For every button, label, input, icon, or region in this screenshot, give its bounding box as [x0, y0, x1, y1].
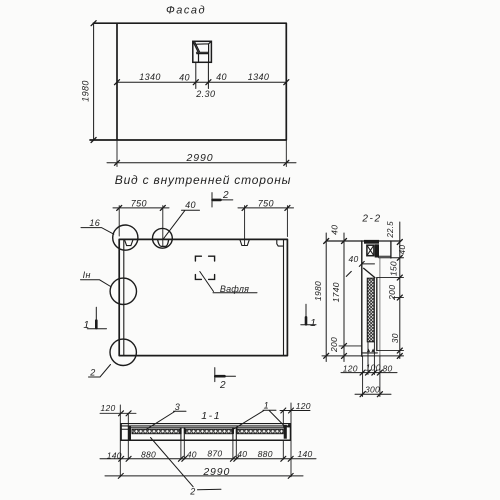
detail circle K3 left middle [110, 278, 136, 304]
inner view left rib line [123, 239, 125, 355]
section 2-2 black band [375, 244, 379, 257]
section 1-1 body bottom line [121, 439, 290, 441]
section 2-2 web inner line [376, 278, 378, 351]
svg-text:40: 40 [330, 225, 340, 235]
detail circle K4 bottom left [110, 339, 136, 365]
facade outline [90, 23, 286, 140]
section 2-2 left edge [361, 241, 363, 356]
svg-text:120: 120 [100, 403, 115, 413]
svg-text:40: 40 [237, 449, 247, 459]
svg-text:750: 750 [258, 199, 274, 209]
svg-text:150: 150 [388, 261, 398, 276]
svg-text:1: 1 [83, 319, 89, 331]
section 2-2 thick top band [364, 240, 379, 244]
svg-text:Фасад: Фасад [166, 5, 206, 17]
section 2-2 flange bottom [376, 256, 404, 258]
section marker 1 right [301, 304, 316, 325]
svg-text:1: 1 [310, 317, 316, 329]
section marker 2 top [212, 193, 233, 207]
svg-text:140: 140 [107, 451, 122, 461]
section 1-1 bottom dim line [100, 458, 316, 460]
svg-text:40: 40 [348, 254, 358, 264]
section 2-2 right extensions [377, 278, 404, 351]
waffle dashed square [195, 256, 214, 279]
svg-text:80: 80 [382, 364, 392, 374]
facade loop extension legs [196, 62, 209, 88]
svg-text:880: 880 [141, 449, 156, 459]
section 1-1 right face [289, 424, 291, 441]
svg-text:1740: 1740 [331, 282, 341, 302]
section 1-1 total dim 2990 [105, 475, 303, 477]
section 1-1 insulation strip S3 [237, 429, 283, 433]
svg-text:1: 1 [264, 401, 269, 411]
facade middle dimension line [117, 81, 286, 83]
svg-text:40: 40 [179, 73, 190, 83]
section 2-2 bottom dim line 120 100 80 [341, 372, 397, 374]
top edge notch C [240, 240, 249, 246]
svg-text:22.5: 22.5 [386, 221, 395, 239]
svg-text:300: 300 [365, 385, 380, 395]
section 2-2 insulation strip [367, 278, 374, 342]
waffle label [200, 272, 257, 293]
section 1-1 outer skin [121, 424, 290, 426]
svg-text:40: 40 [187, 449, 197, 459]
svg-text:Iн: Iн [83, 270, 91, 280]
section 2-2 chamfer diagonal [364, 268, 375, 277]
section 1-1 body top line [131, 427, 284, 429]
section 1-1 extension lines [120, 403, 291, 477]
section 1-1 left face [120, 424, 122, 441]
section 1-1 middle rib R2 [233, 428, 236, 441]
svg-text:16: 16 [89, 218, 100, 228]
svg-text:2: 2 [222, 190, 229, 201]
section 1-1 middle rib R1 [181, 428, 184, 441]
section 1-1 left end rib [128, 427, 131, 440]
section 2-2 anchor triangles [367, 349, 375, 352]
svg-text:2.30: 2.30 [195, 89, 215, 99]
svg-text:100: 100 [366, 362, 381, 372]
section marker 2 bottom [215, 368, 236, 382]
inner view right rib line [283, 239, 285, 355]
inner view outline [119, 239, 287, 355]
svg-text:140: 140 [297, 449, 312, 459]
svg-text:40: 40 [185, 200, 196, 210]
svg-text:2990: 2990 [202, 466, 230, 478]
top right corner step [277, 240, 284, 247]
section 2-2 left dim line 1980 [325, 233, 327, 362]
section marker 1 left [87, 307, 106, 329]
section 2-2 top edge [326, 240, 400, 242]
section 2-2 bottom edges [362, 352, 378, 354]
inner view top dimensions 750 [119, 206, 287, 247]
section 2-2 bottom dim line 300 [355, 393, 391, 395]
svg-text:2: 2 [189, 487, 195, 497]
svg-text:120: 120 [343, 364, 358, 374]
section 2-2 flange right edge [390, 241, 392, 258]
svg-text:Вид с внутренней стороны: Вид с внутренней стороны [115, 173, 291, 187]
svg-text:1980: 1980 [81, 80, 91, 102]
svg-text:200: 200 [329, 337, 339, 353]
section 2-2 loop cross square [367, 245, 374, 256]
section 2-2 bottom extensions [363, 342, 380, 397]
section 1-1 insulation strip S2 [186, 429, 233, 433]
svg-text:1-1: 1-1 [201, 410, 221, 422]
svg-text:1980: 1980 [313, 281, 323, 301]
svg-text:2990: 2990 [186, 152, 214, 164]
top edge notch A [125, 240, 133, 246]
section 1-1 right end rib [284, 425, 287, 439]
section 1-1 label 2 leader [151, 438, 222, 490]
svg-text:3: 3 [175, 402, 180, 412]
svg-text:2: 2 [89, 367, 95, 377]
detail circle K1 top left [113, 225, 138, 250]
facade vertical dimension 1980 [93, 23, 95, 140]
svg-text:200: 200 [387, 285, 397, 301]
svg-text:30: 30 [390, 333, 400, 343]
svg-text:750: 750 [131, 199, 147, 209]
extension 200 top [339, 345, 362, 347]
detail circle K2 [153, 228, 173, 248]
svg-text:120: 120 [296, 401, 311, 411]
section 2-2 left dim line 1740 [343, 233, 345, 362]
facade bottom dimension 2990 [117, 140, 286, 167]
svg-text:40: 40 [216, 72, 227, 82]
section 2-2 right dim line [399, 222, 401, 359]
svg-text:2: 2 [219, 380, 226, 391]
section 1-1 skin underside caps [121, 427, 290, 429]
svg-text:40: 40 [397, 245, 407, 255]
svg-text:1340: 1340 [248, 72, 270, 82]
facade lifting loop U1 [193, 41, 212, 62]
section 1-1 insulation strip S1 [132, 429, 180, 433]
svg-text:Вафля: Вафля [220, 284, 249, 294]
section 2-2 right face [379, 258, 381, 356]
svg-text:870: 870 [207, 449, 222, 459]
top edge notch B [158, 240, 169, 247]
svg-text:880: 880 [258, 449, 273, 459]
svg-text:2-2: 2-2 [361, 214, 381, 225]
svg-text:1340: 1340 [139, 72, 161, 82]
